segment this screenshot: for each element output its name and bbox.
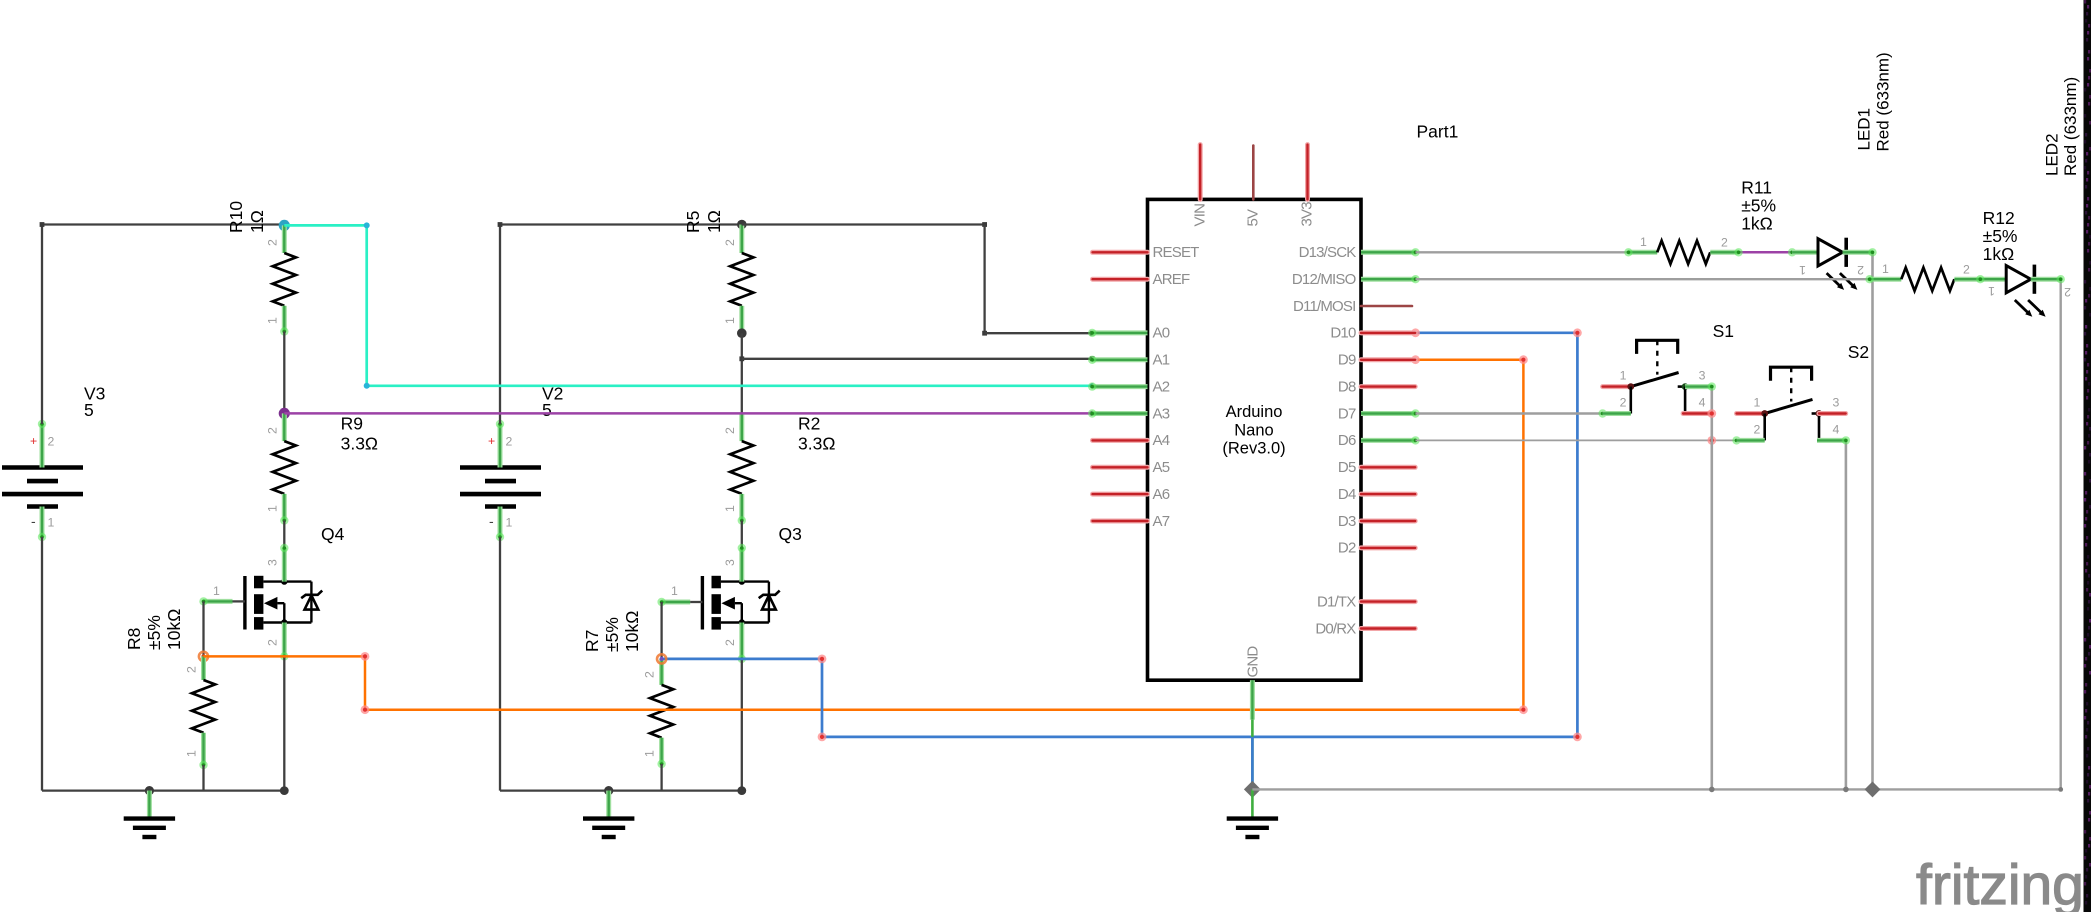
svg-text:D6: D6 bbox=[1338, 432, 1356, 449]
svg-text:2: 2 bbox=[265, 239, 279, 246]
svg-text:3.3Ω: 3.3Ω bbox=[798, 433, 835, 453]
svg-text:D5: D5 bbox=[1338, 459, 1356, 476]
svg-text:S2: S2 bbox=[1848, 342, 1869, 362]
wire Q4 source to ground rail bbox=[283, 656, 285, 790]
pin D12/MISO bbox=[1292, 271, 1420, 288]
ground symbol left bbox=[124, 791, 175, 837]
svg-text:3V3: 3V3 bbox=[1299, 202, 1316, 227]
svg-text:D11/MOSI: D11/MOSI bbox=[1293, 298, 1356, 315]
svg-text:1: 1 bbox=[1799, 263, 1806, 277]
pin D2 bbox=[1338, 540, 1415, 557]
svg-text:5: 5 bbox=[542, 400, 552, 420]
wire D12 to R12 bbox=[1416, 278, 1870, 280]
pin D3 bbox=[1338, 513, 1415, 530]
svg-text:1: 1 bbox=[213, 584, 220, 598]
svg-text:1: 1 bbox=[185, 750, 199, 757]
svg-text:D0/RX: D0/RX bbox=[1315, 620, 1356, 637]
svg-text:1: 1 bbox=[1988, 284, 1995, 298]
svg-text:S1: S1 bbox=[1713, 321, 1734, 341]
label LED2 bbox=[2043, 77, 2081, 176]
svg-text:2: 2 bbox=[1721, 236, 1728, 250]
wire Q3 gate to R7 top bbox=[660, 602, 662, 659]
resistor R5 bbox=[683, 210, 753, 331]
pin AREF bbox=[1093, 271, 1190, 288]
svg-text:1: 1 bbox=[48, 516, 55, 530]
pin A4 bbox=[1093, 432, 1170, 449]
svg-text:R5: R5 bbox=[683, 211, 703, 233]
svg-text:D13/SCK: D13/SCK bbox=[1299, 244, 1357, 261]
svg-text:1: 1 bbox=[1754, 396, 1761, 410]
wire D9 net (orange) bbox=[204, 355, 1528, 714]
svg-text:3: 3 bbox=[265, 559, 279, 566]
resistor R7 bbox=[582, 611, 673, 769]
svg-text:A1: A1 bbox=[1153, 352, 1170, 369]
pin D8 bbox=[1338, 378, 1415, 395]
node R9 top (purple junction) bbox=[279, 408, 290, 419]
wire A0 net (R5 top to A0) bbox=[742, 222, 1095, 335]
svg-text:2: 2 bbox=[185, 666, 199, 673]
wire V3- to ground rail bbox=[42, 537, 289, 795]
wire LED1 cathode to ground bus bbox=[1868, 248, 1876, 789]
wire A3 net (purple) bbox=[284, 411, 1094, 416]
wire V3+ to R10 top bbox=[40, 222, 285, 424]
wire S1 pin3 to ground bus bbox=[1707, 382, 1716, 789]
svg-text:±5%: ±5% bbox=[1741, 196, 1776, 216]
pin A5 bbox=[1093, 459, 1170, 476]
transistor Q3 bbox=[702, 524, 801, 630]
svg-text:Q4: Q4 bbox=[321, 524, 345, 544]
wire Q3 source to ground rail bbox=[741, 659, 743, 791]
svg-text:R10: R10 bbox=[226, 201, 246, 233]
svg-text:1kΩ: 1kΩ bbox=[1741, 214, 1773, 234]
svg-text:3.3Ω: 3.3Ω bbox=[341, 433, 378, 453]
LED LED2 bbox=[1976, 265, 2071, 317]
svg-text:Nano: Nano bbox=[1234, 421, 1273, 439]
pin A3 bbox=[1088, 405, 1170, 422]
svg-text:+: + bbox=[488, 434, 495, 448]
pin A2 bbox=[1088, 378, 1170, 395]
svg-text:LED1: LED1 bbox=[1855, 108, 1874, 151]
svg-text:1: 1 bbox=[1640, 235, 1647, 249]
resistor R12 bbox=[1865, 208, 2017, 291]
svg-text:D3: D3 bbox=[1338, 513, 1356, 530]
svg-text:R7: R7 bbox=[582, 630, 602, 652]
svg-text:1: 1 bbox=[1882, 262, 1889, 276]
svg-text:2: 2 bbox=[506, 435, 513, 449]
svg-text:5: 5 bbox=[84, 400, 94, 420]
svg-text:A6: A6 bbox=[1153, 486, 1170, 503]
svg-text:3: 3 bbox=[1699, 369, 1706, 383]
svg-text:D9: D9 bbox=[1338, 352, 1356, 369]
svg-text:A0: A0 bbox=[1153, 325, 1170, 342]
wire V2+ to R5 top bbox=[498, 222, 742, 424]
svg-text:1: 1 bbox=[265, 317, 279, 324]
svg-text:D7: D7 bbox=[1338, 405, 1356, 422]
wire R7 to ground rail bbox=[660, 764, 662, 791]
wire D13 to R11 bbox=[1416, 251, 1629, 253]
svg-text:1: 1 bbox=[506, 516, 513, 530]
svg-text:D4: D4 bbox=[1338, 486, 1356, 503]
svg-text:1: 1 bbox=[671, 584, 678, 598]
wire D7 to S1 pin2 bbox=[1416, 409, 1607, 417]
svg-text:Arduino: Arduino bbox=[1226, 403, 1283, 421]
wire R8 to ground rail bbox=[202, 765, 204, 791]
pin A0 bbox=[1088, 325, 1170, 342]
svg-text:A4: A4 bbox=[1153, 432, 1170, 449]
svg-text:2: 2 bbox=[723, 239, 737, 246]
svg-text:R11: R11 bbox=[1741, 178, 1772, 198]
svg-text:2: 2 bbox=[48, 435, 55, 449]
svg-text:R12: R12 bbox=[1983, 208, 2015, 228]
svg-text:±5%: ±5% bbox=[144, 615, 164, 650]
resistor R10 bbox=[226, 201, 296, 336]
svg-text:D10: D10 bbox=[1330, 325, 1356, 342]
pin D5 bbox=[1338, 459, 1415, 476]
pin A6 bbox=[1093, 486, 1170, 503]
svg-text:2: 2 bbox=[265, 639, 279, 646]
resistor R9 bbox=[265, 413, 378, 524]
svg-text:2: 2 bbox=[723, 639, 737, 646]
svg-text:2: 2 bbox=[723, 427, 737, 434]
svg-text:RESET: RESET bbox=[1153, 244, 1200, 261]
svg-text:LED2: LED2 bbox=[2043, 133, 2062, 176]
battery V2 bbox=[460, 384, 563, 507]
label LED1 bbox=[1855, 52, 1893, 151]
svg-text:1kΩ: 1kΩ bbox=[1983, 244, 2015, 264]
ground symbol middle bbox=[583, 791, 634, 837]
pin RESET bbox=[1093, 244, 1200, 261]
LED LED1 bbox=[1792, 238, 1872, 290]
node R5 top bbox=[737, 220, 747, 230]
svg-text:3: 3 bbox=[723, 559, 737, 566]
svg-text:2: 2 bbox=[2064, 285, 2071, 299]
Q4 pin 1 (gate) bbox=[199, 584, 245, 606]
battery V3 pin 1 (-) bbox=[31, 507, 55, 542]
svg-text:VIN: VIN bbox=[1192, 204, 1209, 227]
node ground tap middle bbox=[604, 786, 613, 795]
svg-text:10kΩ: 10kΩ bbox=[164, 609, 184, 650]
svg-text:Q3: Q3 bbox=[779, 524, 802, 544]
svg-text:4: 4 bbox=[1833, 422, 1840, 436]
pin A7 bbox=[1093, 513, 1170, 530]
wire S2 pin4 to ground bus bbox=[1842, 436, 1850, 789]
pin VIN bbox=[1192, 145, 1209, 227]
node GND junction bbox=[1244, 781, 1261, 798]
wire R11 to LED1 (purple) bbox=[1734, 248, 1796, 256]
pin D1/TX bbox=[1317, 593, 1415, 610]
node ground tap left bbox=[145, 786, 154, 795]
svg-text:4: 4 bbox=[1699, 396, 1706, 410]
svg-text:-: - bbox=[31, 513, 36, 529]
pin D10 bbox=[1330, 325, 1415, 342]
pin 3V3 bbox=[1299, 145, 1316, 227]
pin D4 bbox=[1338, 486, 1415, 503]
node R5 bottom bbox=[737, 328, 747, 338]
wire D6 to S2 pin2 bbox=[1416, 436, 1741, 445]
screen edge strip bbox=[2084, 0, 2091, 912]
battery V3 pin 2 (+) bbox=[30, 420, 55, 468]
svg-text:Red (633nm): Red (633nm) bbox=[1874, 52, 1893, 151]
pin GND bbox=[1245, 646, 1262, 720]
wire D10 net (blue) bbox=[657, 328, 1582, 741]
svg-text:1: 1 bbox=[265, 505, 279, 512]
svg-text:D2: D2 bbox=[1338, 540, 1356, 557]
svg-text:3: 3 bbox=[1833, 396, 1840, 410]
svg-text:AREF: AREF bbox=[1153, 271, 1190, 288]
svg-text:1: 1 bbox=[643, 750, 657, 757]
ground bus wire bbox=[1252, 781, 2063, 797]
svg-text:A3: A3 bbox=[1153, 405, 1170, 422]
wire R2 to Q3 drain bbox=[741, 521, 743, 549]
wire GND to ground node bbox=[1251, 720, 1254, 790]
svg-text:R2: R2 bbox=[798, 413, 820, 433]
svg-text:D12/MISO: D12/MISO bbox=[1292, 271, 1356, 288]
svg-text:-: - bbox=[489, 513, 494, 529]
pin D7 bbox=[1338, 405, 1420, 422]
svg-text:2: 2 bbox=[1857, 263, 1864, 277]
node R8 top (orange junction) bbox=[199, 652, 208, 661]
svg-text:2: 2 bbox=[265, 427, 279, 434]
pin D9 bbox=[1338, 352, 1415, 369]
pin A1 bbox=[1088, 352, 1170, 369]
svg-text:10kΩ: 10kΩ bbox=[622, 611, 642, 652]
svg-text:D8: D8 bbox=[1338, 378, 1356, 395]
wire R5 bottom to node A1 bbox=[741, 333, 743, 413]
switch S1 bbox=[1603, 321, 1734, 414]
svg-text:±5%: ±5% bbox=[1983, 226, 2018, 246]
wire A2 net (cyan) bbox=[284, 222, 1094, 388]
Q3 pin 3 (drain) bbox=[723, 544, 746, 582]
svg-text:D1/TX: D1/TX bbox=[1317, 593, 1356, 610]
battery V2 pin 1 (-) bbox=[489, 507, 513, 542]
svg-text:(Rev3.0): (Rev3.0) bbox=[1222, 440, 1285, 458]
pin D13/SCK bbox=[1299, 244, 1420, 261]
svg-text:2: 2 bbox=[1963, 263, 1970, 277]
svg-text:A5: A5 bbox=[1153, 459, 1170, 476]
fritzing watermark bbox=[1916, 853, 2084, 912]
Q4 pin 3 (drain) bbox=[265, 544, 288, 582]
resistor R8 bbox=[124, 609, 215, 770]
node R10 top (cyan junction) bbox=[279, 220, 290, 231]
Q4 pin 2 (source) bbox=[265, 623, 288, 661]
battery V3 bbox=[2, 384, 105, 507]
pin D11/MOSI bbox=[1293, 298, 1412, 315]
pin 5V bbox=[1245, 146, 1262, 227]
svg-text:R8: R8 bbox=[124, 628, 144, 650]
pin D0/RX bbox=[1315, 620, 1415, 637]
svg-text:Red (633nm): Red (633nm) bbox=[2061, 77, 2080, 176]
svg-text:1: 1 bbox=[723, 505, 737, 512]
svg-text:Part1: Part1 bbox=[1417, 122, 1459, 142]
svg-text:A7: A7 bbox=[1153, 513, 1170, 530]
switch S2 bbox=[1737, 342, 1870, 440]
svg-text:2: 2 bbox=[1754, 422, 1761, 436]
Q3 pin 2 (source) bbox=[723, 623, 746, 664]
wire A1 net (R5 bottom to A1) bbox=[739, 356, 1094, 361]
svg-text:2: 2 bbox=[1620, 396, 1627, 410]
svg-text:1Ω: 1Ω bbox=[247, 210, 267, 233]
svg-text:5V: 5V bbox=[1245, 209, 1262, 227]
svg-text:1: 1 bbox=[1620, 369, 1627, 383]
svg-text:2: 2 bbox=[643, 671, 657, 678]
svg-text:+: + bbox=[30, 434, 37, 448]
resistor R2 bbox=[723, 413, 836, 524]
wire Q4 gate to R8 top bbox=[202, 601, 204, 656]
wire LED2 cathode to ground bus bbox=[2057, 275, 2065, 789]
wire R9 to Q4 drain bbox=[283, 521, 285, 549]
transistor Q4 bbox=[245, 524, 345, 630]
pin D6 bbox=[1338, 432, 1420, 449]
svg-text:GND: GND bbox=[1245, 646, 1262, 678]
svg-text:1Ω: 1Ω bbox=[704, 210, 724, 233]
wire V2- to ground rail bbox=[500, 537, 746, 795]
svg-text:1: 1 bbox=[723, 317, 737, 324]
svg-text:fritzing: fritzing bbox=[1916, 853, 2084, 912]
svg-text:±5%: ±5% bbox=[602, 617, 622, 652]
label Part1 bbox=[1417, 122, 1459, 142]
svg-text:R9: R9 bbox=[341, 413, 363, 433]
ground symbol center bbox=[1227, 789, 1278, 837]
IC U1 Arduino Nano body bbox=[1148, 199, 1362, 680]
wire R10 pin1 to node A3 bbox=[283, 332, 285, 414]
Q3 pin 1 (gate) bbox=[657, 584, 702, 606]
svg-text:A2: A2 bbox=[1153, 378, 1170, 395]
battery V2 pin 2 (+) bbox=[488, 420, 513, 468]
resistor R11 bbox=[1624, 178, 1776, 264]
